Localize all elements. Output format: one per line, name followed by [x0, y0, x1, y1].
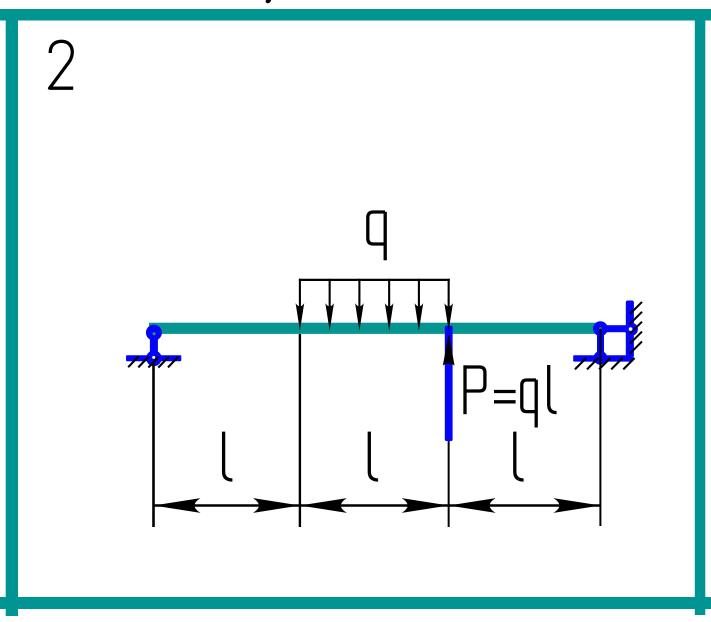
frame right border [695, 9, 706, 615]
right support bottom pin circle [594, 351, 608, 365]
right support wall hatching [630, 302, 642, 354]
dimension label l segment 2 [369, 432, 378, 480]
P load blue shaft [445, 326, 453, 441]
left support bottom pin circle [146, 351, 162, 367]
left support pin stem [150, 332, 158, 357]
frame left border [6, 9, 18, 616]
dimension arrowheads segment 3 [449, 498, 496, 513]
dimension line [154, 504, 601, 506]
right support main pin circle [593, 321, 608, 336]
distributed load arrowheads [296, 303, 453, 331]
left support top pin hole [153, 332, 156, 335]
right support vertical link [597, 329, 604, 358]
left support base bar [126, 355, 181, 361]
left support hatching [128, 356, 178, 367]
left support bottom pin hole [152, 356, 155, 359]
right support wall pin hole [629, 327, 633, 331]
cut-off glyph fragment at top edge [266, 0, 272, 3]
right support wall pin circle [625, 323, 638, 336]
right support base hatching [575, 358, 635, 369]
label P=ql [465, 365, 557, 428]
extension line left support [152, 361, 155, 527]
frame bottom border [0, 597, 711, 609]
label q (distributed load) [368, 212, 385, 260]
dimension arrowheads segment 1 [154, 498, 201, 513]
distributed load top line [299, 279, 450, 281]
extension line under first load arrow [299, 334, 301, 527]
right support wall bar [626, 301, 634, 358]
P load arrowhead (upward) [443, 334, 455, 366]
right support base bar [573, 355, 633, 361]
extension line under P load [448, 441, 450, 527]
dimension label l segment 1 [224, 432, 233, 480]
beam [149, 323, 601, 334]
label 2 (problem number) [50, 41, 74, 88]
dimension arrowheads segment 2 [300, 498, 347, 513]
right support horizontal link [600, 325, 631, 332]
distributed load arrow shafts [300, 279, 449, 307]
right support main pin hole [599, 327, 602, 330]
extension line right support [599, 329, 601, 526]
left support top pin circle [146, 325, 162, 341]
frame top border [0, 9, 711, 21]
dimension label l segment 3 [515, 432, 524, 480]
